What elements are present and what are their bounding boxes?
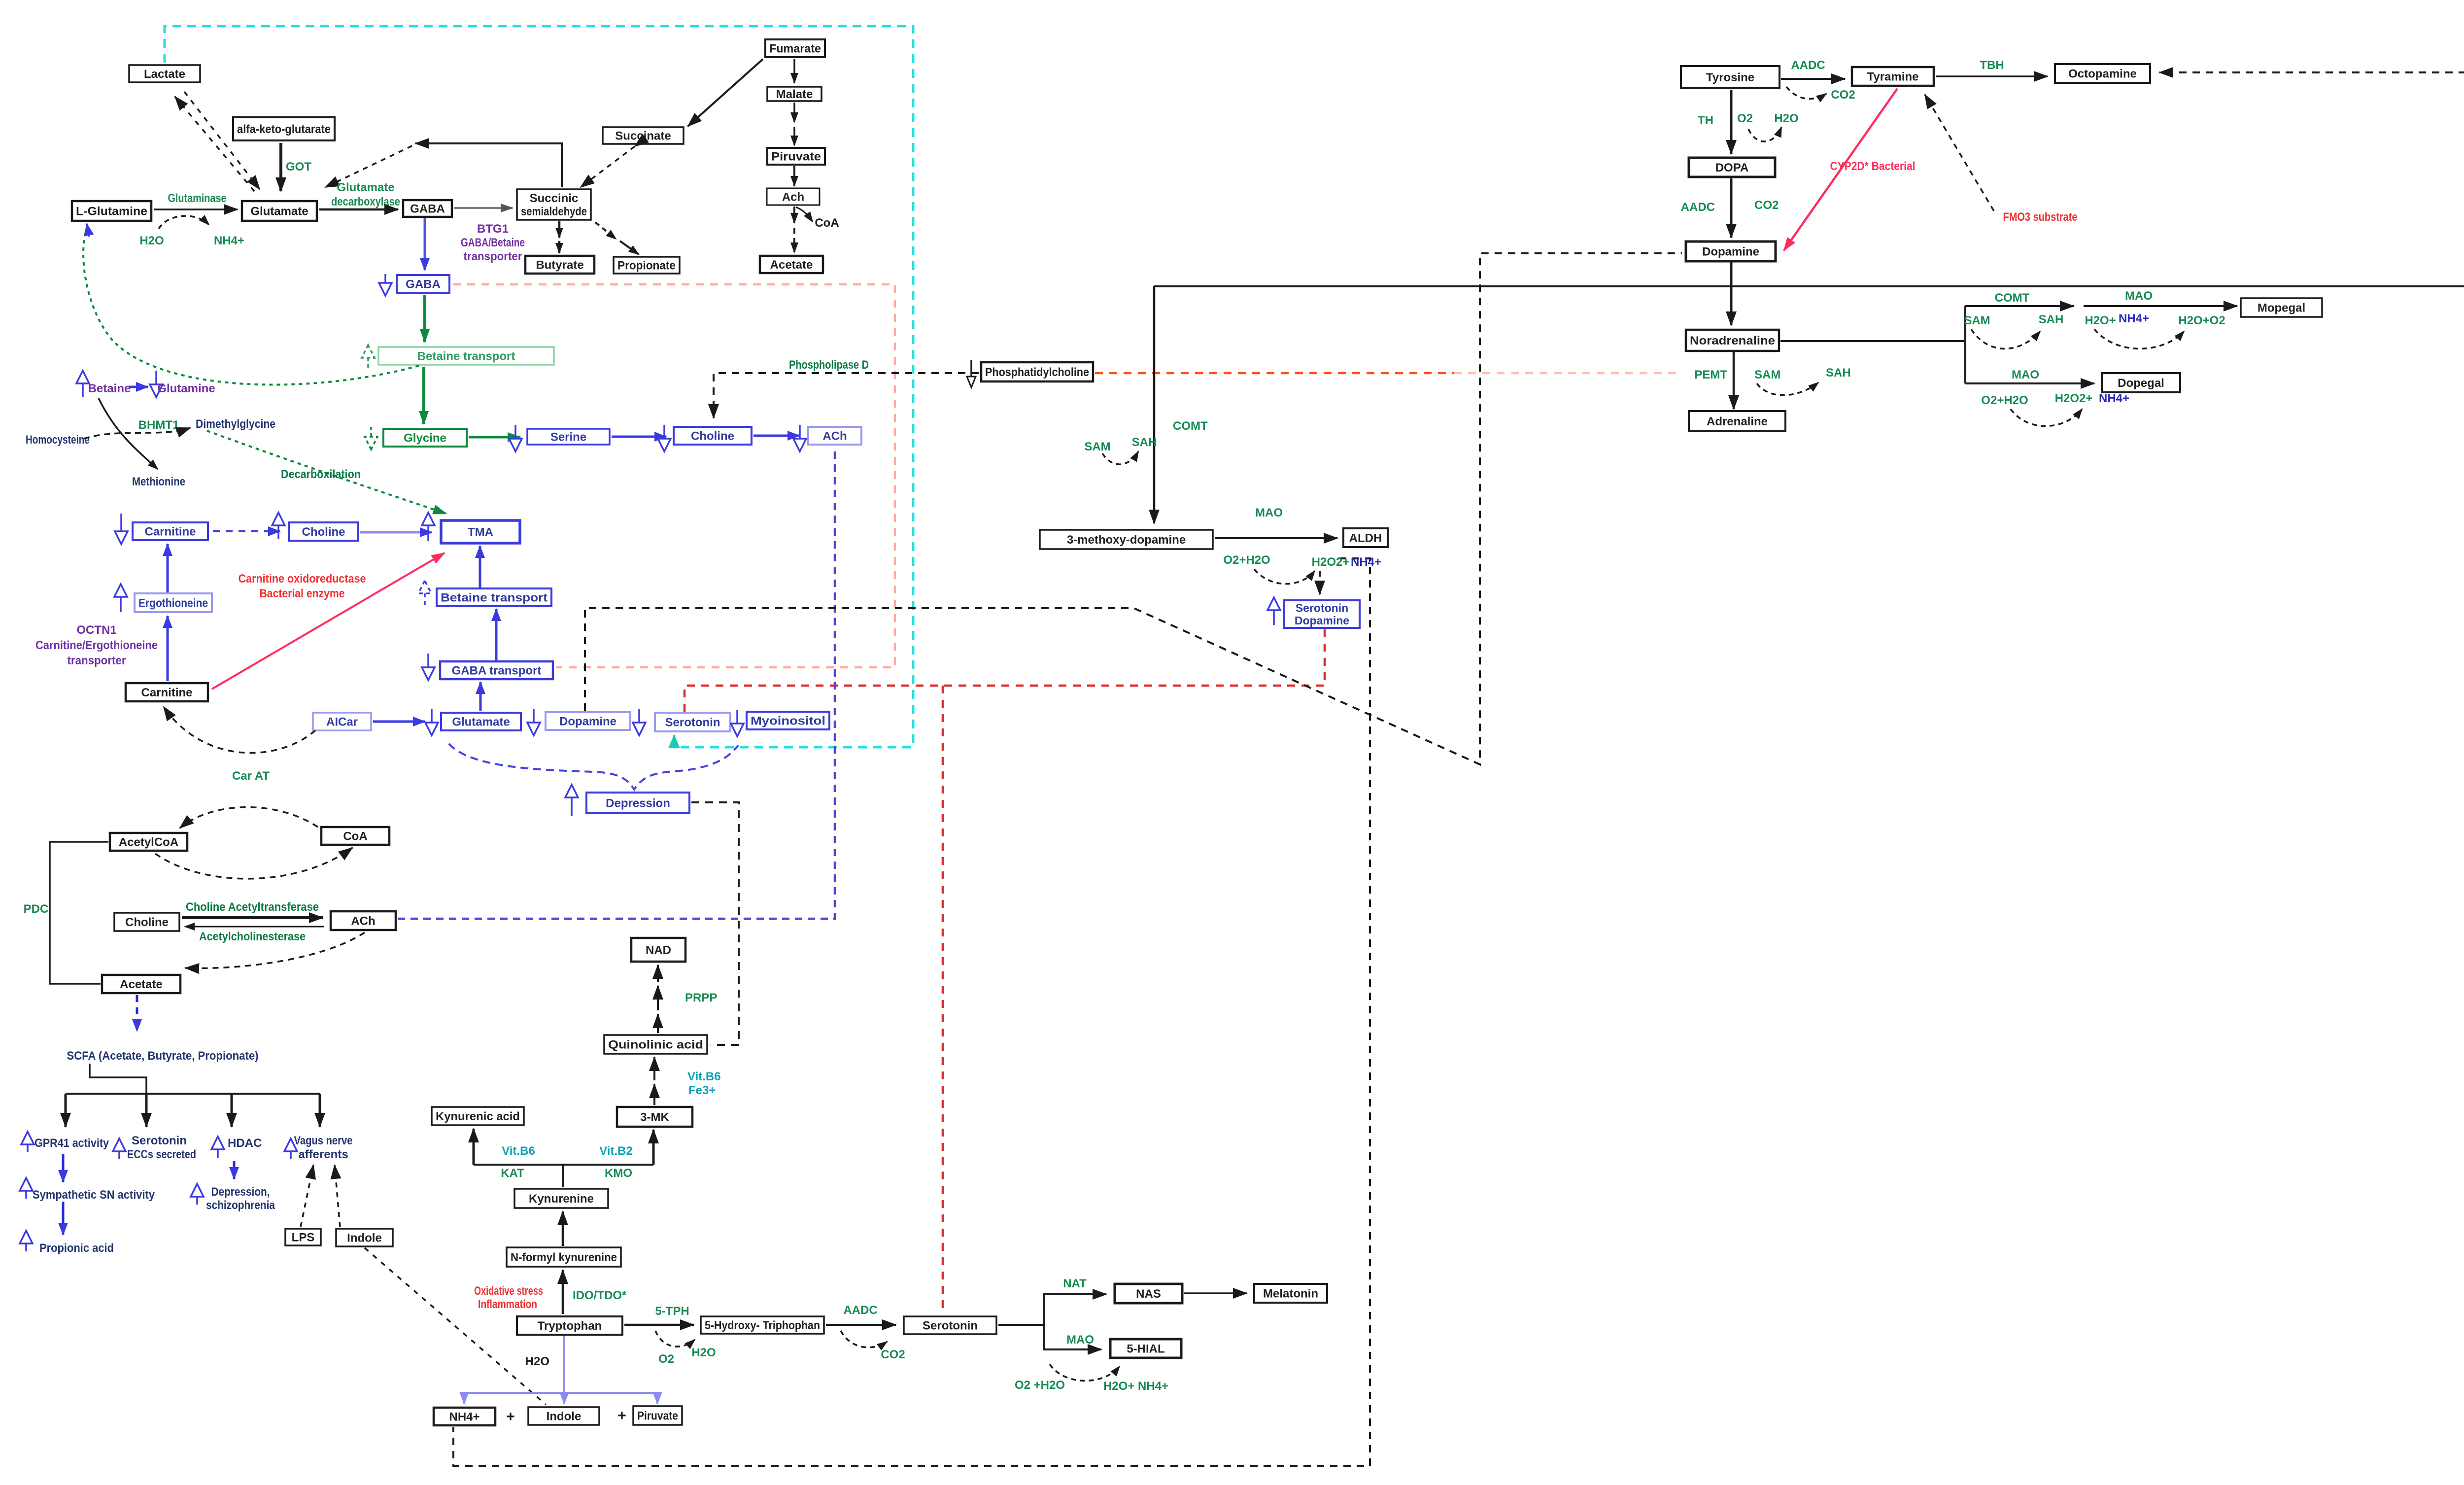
svg-text:MAO: MAO (1255, 506, 1283, 519)
node Fumarate (765, 39, 825, 57)
node ACh blue (808, 427, 861, 445)
arrow Succinic semialdehyde->Butyrate b (558, 241, 561, 253)
wire cyan feedback Serotonin->Lactate (165, 26, 913, 747)
node NH4+ bottom (434, 1408, 495, 1425)
arrow ->Indole bottom (563, 1393, 565, 1404)
wire Indole->Indole bottom diagonal (365, 1248, 546, 1405)
wire SAM->SAH arc adr (1757, 382, 1818, 395)
arrow SCFA->HDAC (231, 1094, 233, 1127)
arrow Sympathetic->Propionic (62, 1202, 65, 1235)
wire cycle AcetylCoA->CoA (155, 848, 352, 879)
svg-text:GABA/Betaine: GABA/Betaine (461, 236, 525, 249)
svg-text:MAO: MAO (1066, 1333, 1094, 1347)
node Piruvate bottom (633, 1406, 682, 1425)
node Choline blue (674, 427, 752, 445)
svg-text:Choline: Choline (302, 525, 345, 539)
wire MAO arc aldh (1254, 569, 1315, 584)
svg-text:SAM: SAM (1964, 314, 1990, 327)
node Indole top (336, 1229, 393, 1246)
arrow 5-Hydroxy->Serotonin (826, 1324, 896, 1326)
svg-text:H2O: H2O (1774, 112, 1798, 125)
node Mopegal (2241, 298, 2322, 317)
wire dashed FMO3->Tyramine (1925, 95, 1994, 211)
wire dashed Phosphatidylcholine->Choline (714, 373, 979, 418)
svg-text:AADC: AADC (843, 1304, 877, 1317)
wire ACh->Acetate curve (185, 932, 365, 968)
svg-text:NH4+: NH4+ (2119, 312, 2149, 325)
indicator down Glutamate blue (425, 709, 438, 735)
arrow AICar->Glutamate blue (373, 721, 425, 723)
svg-text:Tryptophan: Tryptophan (538, 1319, 602, 1333)
svg-text:CO2: CO2 (1831, 88, 1855, 102)
node Acetate black (102, 975, 180, 993)
arrow HDAC->Depression schizo (233, 1161, 236, 1179)
indicator down Carnitine blue (115, 514, 128, 544)
wire red dashed fade right (1454, 372, 1678, 375)
svg-text:KMO: KMO (605, 1167, 632, 1180)
svg-text:Carnitine: Carnitine (141, 686, 192, 699)
svg-text:decarboxylase: decarboxylase (331, 195, 400, 208)
indicator up GPR41 (21, 1132, 34, 1152)
svg-text:Indole: Indole (547, 1410, 582, 1423)
arrow cyan into Serotonin bottom (673, 735, 676, 746)
svg-text:Carnitine: Carnitine (144, 525, 196, 539)
svg-text:Serotonin: Serotonin (923, 1319, 978, 1333)
node Depression (586, 793, 689, 813)
svg-text:H2O+O2: H2O+O2 (2178, 314, 2225, 327)
arrow GABA->Succinic semialdehyde (454, 207, 513, 209)
wire red serotonin link (684, 629, 1325, 712)
svg-text:+: + (506, 1409, 515, 1425)
svg-text:Succinate: Succinate (615, 130, 671, 143)
svg-text:IDO/TDO*: IDO/TDO* (573, 1289, 627, 1302)
node Acetate top (760, 256, 823, 273)
node CoA (321, 827, 389, 845)
svg-text:Glutaminase: Glutaminase (168, 192, 227, 205)
wire dashed Lactate->Glutamate (184, 92, 260, 189)
node Carnitine blue (133, 522, 208, 540)
svg-text:HDAC: HDAC (228, 1137, 262, 1150)
arrow GABA transport->Betaine transport (495, 609, 498, 660)
indicator down Serine (509, 425, 522, 451)
arrow Choline->TMA (360, 531, 432, 534)
wire Tryptophan->products stem (563, 1336, 565, 1393)
arrow DOPA->Dopamine (1730, 178, 1733, 238)
node Noradrenaline (1686, 330, 1779, 351)
svg-text:O2+H2O: O2+H2O (1981, 394, 2028, 407)
svg-text:schizophrenia: schizophrenia (206, 1199, 275, 1212)
svg-text:3-MK: 3-MK (640, 1111, 669, 1124)
arrow Tyramine->Octopamine (1936, 75, 2048, 77)
svg-text:ACh: ACh (822, 430, 847, 443)
indicator up Vagus (284, 1139, 297, 1159)
arrow Betaine transport blue->TMA (479, 546, 481, 587)
wire black dashed NH4 loop (453, 558, 1370, 1466)
svg-text:3-methoxy-dopamine: 3-methoxy-dopamine (1067, 533, 1186, 547)
svg-text:Propionic acid: Propionic acid (39, 1242, 114, 1255)
svg-text:PDC: PDC (24, 902, 49, 916)
arrow pink Tyramine->Dopamine (1784, 89, 1897, 250)
arrow SCFA->GPR41 (65, 1094, 67, 1127)
wire AADC->CO2 arc (841, 1331, 887, 1347)
arrow Succinic semialdehyde->Propionate a (595, 222, 616, 239)
svg-text:Fumarate: Fumarate (769, 42, 821, 56)
node Glycine (383, 429, 467, 447)
svg-text:TMA: TMA (468, 526, 493, 539)
indicator down ACh blue (793, 425, 806, 451)
wire Noradrenaline->right (1780, 340, 1965, 342)
indicator up Propionic (20, 1231, 33, 1251)
arrow SCFA->Vagus (319, 1094, 321, 1127)
node ALDH (1343, 528, 1388, 547)
wire Noradrenaline vertical (1964, 306, 1966, 383)
arrow MAO->Mopegal (2084, 305, 2237, 307)
node alfa-keto-glutarate (233, 117, 335, 140)
arrow Serine->Choline (612, 436, 666, 438)
wire Serotonin->branch (998, 1294, 1106, 1325)
arrow GPR41->Sympathetic (62, 1154, 65, 1182)
arrow ->NH4+ bottom (463, 1393, 465, 1404)
node NAS (1115, 1284, 1182, 1303)
svg-text:Carnitine/Ergothioneine: Carnitine/Ergothioneine (35, 639, 158, 652)
node N-formyl kynurenine (507, 1247, 621, 1267)
node Octopamine (2055, 64, 2150, 83)
svg-text:Vagus nerve: Vagus nerve (294, 1134, 353, 1147)
svg-text:H2O2+: H2O2+ (1312, 555, 1350, 569)
svg-text:GOT: GOT (286, 160, 311, 173)
svg-text:Acetate: Acetate (770, 258, 813, 272)
indicator down GABA blue (379, 274, 392, 296)
node L-Glutamine (72, 201, 151, 221)
svg-text:Myoinositol: Myoinositol (751, 715, 825, 728)
svg-text:Glutamine: Glutamine (157, 382, 215, 395)
indicator down Serotonin blue (633, 709, 646, 735)
svg-text:Succinic: Succinic (530, 192, 579, 205)
svg-text:transporter: transporter (68, 654, 126, 667)
arrow Malate->Piruvate b (793, 127, 795, 145)
indicator down Choline2 (658, 425, 671, 451)
wire SAM->SAH arc mid (1102, 451, 1138, 464)
wire dashed Succinate<->Succinic semialdehyde (581, 146, 635, 187)
arrow blue into L-Glutamine (87, 224, 89, 237)
svg-text:Dopamine: Dopamine (559, 715, 616, 728)
arrow NAS->Melatonin (1184, 1292, 1247, 1294)
svg-text:Depression,: Depression, (211, 1185, 270, 1199)
svg-text:Betaine: Betaine (88, 382, 131, 395)
svg-text:Glutamate: Glutamate (337, 181, 394, 194)
arrow Glycine->Serine (469, 436, 520, 439)
arrow Piruvate->Ach (793, 166, 795, 186)
svg-text:Glutamate: Glutamate (250, 205, 308, 218)
svg-text:AICar: AICar (326, 716, 358, 729)
arrow Noradrenaline->Adrenaline (1733, 352, 1735, 409)
node 5-HIAL (1110, 1339, 1181, 1358)
node Ergothioneine (135, 593, 212, 612)
svg-text:Octopamine: Octopamine (2068, 68, 2137, 81)
svg-text:Piruvate: Piruvate (637, 1410, 678, 1423)
svg-text:OCTN1: OCTN1 (76, 623, 116, 637)
svg-text:NH4+: NH4+ (1351, 555, 1381, 569)
arrow Carnitine black->Ergothioneine (167, 616, 169, 681)
svg-text:MAO: MAO (2125, 289, 2153, 303)
svg-text:Sympathetic SN activity: Sympathetic SN activity (33, 1188, 155, 1202)
wire H2O->NH4+ arc (159, 216, 209, 229)
indicator up Serotonin Dopamine (1267, 597, 1280, 625)
svg-text:Adrenaline: Adrenaline (1707, 415, 1768, 428)
node Glutamate blue (441, 713, 521, 730)
node Butyrate (525, 256, 594, 274)
svg-text:NH4+: NH4+ (2099, 392, 2129, 405)
node Ach (767, 188, 820, 205)
arrow ->Piruvate bottom (656, 1393, 658, 1404)
svg-text:TH: TH (1698, 114, 1713, 127)
wire cycle CoA->AcetylCoA (180, 807, 318, 828)
wire O2->H2O arc th (1748, 127, 1781, 141)
node Betaine transport light (378, 347, 554, 365)
svg-text:Malate: Malate (776, 88, 813, 101)
wire Homocysteine->Dimethylglycine curve (84, 428, 190, 439)
indicator up Sympathetic (20, 1178, 33, 1199)
svg-text:Methionine: Methionine (132, 475, 185, 488)
indicator down GABA transport (422, 654, 435, 680)
wire red branch to serotonin black (942, 686, 944, 1314)
svg-text:NH4+: NH4+ (449, 1411, 479, 1424)
arrow Betaine->Glutamine (129, 386, 148, 388)
wire AADC->CO2 arc tyr (1786, 87, 1826, 99)
wire Kynurenine stem (562, 1165, 564, 1187)
svg-text:Phospholipase D: Phospholipase D (789, 358, 869, 372)
indicator up Depression schizo (191, 1184, 204, 1205)
svg-text:Acetylcholinesterase: Acetylcholinesterase (199, 930, 306, 943)
svg-text:TBH: TBH (1980, 59, 2004, 72)
node Piruvate (767, 148, 825, 165)
arrow Quinolinic->NAD c (657, 965, 659, 982)
svg-text:L-Glutamine: L-Glutamine (76, 205, 147, 218)
wire LPS->Vagus dashed (301, 1165, 313, 1227)
arrow Fumarate->Malate (793, 59, 795, 83)
indicator up Betaine transport blue (418, 581, 431, 607)
arrow 3-MK->Quinolinic a (653, 1084, 655, 1105)
wire red dashed Phosphatidylcholine->right (1095, 372, 1454, 375)
wire dashed ->Glutamate from semialdehyde (325, 146, 412, 187)
wire Serotonin->branch low (1044, 1325, 1101, 1349)
svg-text:AADC: AADC (1791, 59, 1825, 72)
svg-text:Serotonin: Serotonin (665, 716, 720, 729)
svg-text:NAS: NAS (1136, 1287, 1161, 1301)
svg-text:H2O: H2O (691, 1346, 716, 1359)
node Dopamine right (1686, 242, 1776, 261)
svg-text:Bacterial enzyme: Bacterial enzyme (260, 587, 345, 600)
node Serotonin blue (655, 713, 730, 731)
svg-text:+: + (617, 1408, 626, 1424)
node Kynurenine (514, 1189, 608, 1208)
svg-text:Choline: Choline (125, 916, 169, 929)
svg-text:LPS: LPS (292, 1231, 315, 1244)
wire dashed Glutamate->Lactate (175, 97, 254, 191)
svg-text:Indole: Indole (347, 1232, 382, 1245)
svg-text:ALDH: ALDH (1349, 532, 1382, 545)
arrow Ach->Acetate b (793, 228, 795, 252)
svg-text:Melatonin: Melatonin (1263, 1287, 1318, 1301)
node Malate (767, 87, 821, 101)
svg-text:BHMT1: BHMT1 (138, 418, 179, 432)
arrow Succinic semialdehyde->Propionate b (620, 241, 639, 254)
svg-text:Choline Acetyltransferase: Choline Acetyltransferase (186, 900, 319, 914)
wire green Betaine transport->L-Glutamine (83, 228, 419, 385)
svg-text:CO2: CO2 (881, 1348, 905, 1361)
svg-text:H2O+: H2O+ (2085, 314, 2116, 327)
arrow MAO->Dopegal (1965, 382, 2094, 384)
wire SAM->SAH arc right (1971, 329, 2040, 349)
wire H2O->H2O+O2 arc (2094, 329, 2184, 349)
node Serotonin Dopamine (1284, 600, 1360, 628)
arrow Tryptophan->N-formyl (562, 1270, 564, 1314)
arrow ACh->Choline (AChE) (185, 926, 324, 928)
svg-text:O2 +H2O: O2 +H2O (1015, 1379, 1065, 1392)
node Dopegal (2102, 373, 2180, 392)
indicator up Betaine transport light (362, 345, 375, 369)
arrow Betaine transport->Glycine (422, 367, 425, 424)
arrow 3-MK->Quinolinic b (653, 1057, 655, 1080)
indicator up Choline mid (272, 513, 285, 539)
wire purple ACh link (398, 447, 835, 919)
svg-text:afferents: afferents (298, 1148, 348, 1161)
node GABA (403, 200, 452, 217)
svg-text:Acetate: Acetate (120, 978, 163, 991)
node Succinic semialdehyde (517, 189, 591, 220)
svg-text:Glutamate: Glutamate (452, 716, 510, 729)
svg-text:transporter: transporter (464, 250, 522, 263)
node Succinate (603, 127, 684, 144)
arrow 3-methoxy->ALDH (1215, 537, 1337, 539)
arrow SCFA->Serotonin ECC (145, 1094, 148, 1127)
indicator down Glutamine (150, 371, 163, 397)
svg-text:Kynurenic acid: Kynurenic acid (436, 1110, 520, 1123)
svg-text:Vit.B6: Vit.B6 (687, 1070, 721, 1083)
wire Tryptophan->products bar (464, 1392, 657, 1394)
arrow Tyrosine->Tyramine (1781, 78, 1845, 80)
svg-text:KAT: KAT (501, 1167, 524, 1180)
svg-text:MAO: MAO (2012, 368, 2039, 381)
indicator up Betaine (76, 371, 89, 397)
svg-text:Dopamine: Dopamine (1295, 614, 1349, 627)
arrow COMT down to 3-methoxy (1153, 286, 1156, 523)
indicator up Depression (565, 785, 578, 816)
indicator up Serotonin ECCs (113, 1139, 126, 1159)
svg-text:NAT: NAT (1063, 1277, 1087, 1290)
svg-text:5-TPH: 5-TPH (655, 1305, 689, 1318)
svg-text:Betaine transport: Betaine transport (441, 591, 548, 605)
wire dashed Depression->Quinolinic acid (691, 802, 739, 1045)
svg-text:Choline: Choline (691, 430, 734, 443)
arrow branch->3-MK (652, 1130, 655, 1165)
svg-text:Oxidative stress: Oxidative stress (474, 1284, 543, 1298)
svg-text:5-Hydroxy- Triphophan: 5-Hydroxy- Triphophan (705, 1319, 820, 1332)
indicator up TMA (422, 513, 435, 541)
svg-text:alfa-keto-glutarate: alfa-keto-glutarate (237, 123, 331, 136)
svg-text:Vit.B2: Vit.B2 (599, 1144, 633, 1158)
node GABA blue (397, 275, 449, 293)
node Dopamine blue (546, 712, 630, 730)
arrow Dopamine->Noradrenaline (1730, 262, 1733, 325)
svg-text:Phosphatidylcholine: Phosphatidylcholine (985, 366, 1089, 379)
svg-text:SAM: SAM (1754, 368, 1780, 381)
arrow Choline->ACh blue (753, 435, 799, 437)
svg-text:ACh: ACh (351, 915, 375, 928)
svg-text:Dopamine: Dopamine (1702, 245, 1759, 259)
wire Succinic semialdehyde->left (415, 143, 562, 187)
svg-text:Butyrate: Butyrate (536, 259, 583, 272)
indicator down Glycine (365, 427, 377, 449)
node Melatonin (1254, 1284, 1327, 1303)
arrow Quinolinic->NAD b (657, 986, 659, 1010)
node Myoinositol (747, 712, 829, 729)
svg-text:PEMT: PEMT (1694, 368, 1727, 381)
svg-text:Homocysteine: Homocysteine (26, 433, 90, 447)
wire salmon GABA->GABA transport (453, 284, 895, 667)
node DOPA (1689, 158, 1775, 177)
svg-text:NAD: NAD (646, 944, 671, 957)
wire Kynurenine branch (474, 1164, 653, 1166)
indicator down Myoinositol (731, 710, 744, 736)
svg-text:SAH: SAH (2039, 313, 2064, 326)
svg-text:SAH: SAH (1826, 366, 1851, 380)
svg-text:Depression: Depression (606, 797, 670, 810)
arrow Tyrosine->DOPA (1730, 90, 1733, 154)
svg-text:AcetylCoA: AcetylCoA (119, 836, 178, 849)
svg-text:Fe3+: Fe3+ (688, 1084, 716, 1097)
svg-text:GABA transport: GABA transport (452, 664, 542, 678)
node Choline black (114, 913, 179, 931)
arrow Ergothioneine->Carnitine (167, 544, 169, 592)
node Kynurenic acid (432, 1107, 524, 1125)
svg-text:H2O: H2O (525, 1355, 549, 1368)
svg-text:Ergothioneine: Ergothioneine (138, 597, 208, 610)
node Lactate (129, 65, 200, 82)
svg-text:COMT: COMT (1173, 419, 1208, 433)
wire serotonin MAO arc (1050, 1364, 1120, 1381)
indicator up HDAC (211, 1137, 224, 1158)
node Propionate (614, 257, 680, 274)
node NAD (631, 938, 685, 962)
arrow GABA blue->Betaine transport (423, 295, 426, 342)
wire dashed NH4->SerDop arrow (1319, 571, 1321, 594)
wire Indole->Vagus dashed (335, 1165, 340, 1227)
wire SCFA tree stem (90, 1064, 146, 1093)
svg-text:Betaine transport: Betaine transport (417, 350, 515, 363)
svg-text:5-HIAL: 5-HIAL (1127, 1343, 1164, 1356)
arrow alfa-keto-glutarate->Glutamate (GOT) (279, 143, 282, 191)
svg-text:Lactate: Lactate (144, 68, 185, 81)
node LPS (285, 1229, 321, 1245)
svg-text:Kynurenine: Kynurenine (529, 1192, 594, 1206)
svg-text:SAM: SAM (1084, 440, 1110, 453)
arrow Fumarate->Succinate (688, 59, 763, 126)
arrow branch->Kynurenic acid (473, 1129, 475, 1165)
svg-text:Vit.B6: Vit.B6 (502, 1144, 535, 1158)
wire green Decarboxilation (207, 431, 446, 514)
svg-text:N-formyl kynurenine: N-formyl kynurenine (511, 1251, 617, 1264)
node 5-Hydroxy-Triphophan (701, 1316, 824, 1334)
node Serine (527, 429, 610, 445)
arrow Acetate->SCFA dashed blue (136, 995, 138, 1031)
svg-text:AADC: AADC (1681, 201, 1715, 214)
arrow N-formyl->Kynurenine (562, 1211, 564, 1246)
svg-text:GABA: GABA (410, 203, 445, 216)
node TMA (441, 520, 520, 543)
node Indole bottom (528, 1407, 599, 1425)
node Adrenaline (1689, 411, 1785, 431)
